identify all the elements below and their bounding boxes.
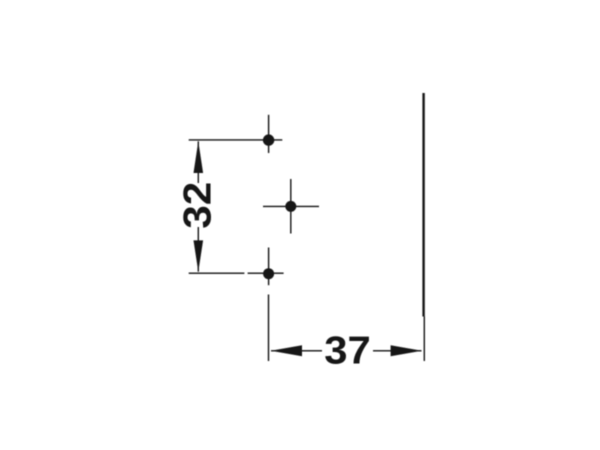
arrow up (32 dim) — [194, 141, 204, 173]
centerline middle hole horizontal — [263, 205, 319, 207]
hole dot bottom — [263, 268, 274, 279]
extension line bottom hole — [189, 272, 245, 274]
extension line top hole — [189, 139, 283, 141]
svg-text:32: 32 — [176, 182, 219, 229]
centerline bottom hole horizontal — [248, 272, 284, 274]
arrow down (32 dim) — [194, 240, 204, 271]
centerline top hole vertical — [268, 115, 270, 153]
extension line below bottom hole — [268, 295, 270, 362]
dimension line 32 lower segment — [197, 227, 199, 272]
hole dot top — [263, 134, 274, 145]
centerline bottom hole vertical — [268, 248, 270, 286]
centerline middle hole vertical — [290, 179, 292, 234]
dimension line 32 upper segment — [197, 141, 199, 183]
arrow right (37 dim) — [391, 345, 422, 356]
dimension line 37 right segment — [373, 350, 422, 352]
svg-text:37: 37 — [324, 330, 371, 373]
arrow left (37 dim) — [271, 345, 302, 356]
dimension line 37 left segment — [271, 350, 322, 352]
plate edge line — [422, 93, 424, 317]
extension line right (below plate edge) — [423, 317, 425, 362]
hole dot middle — [285, 201, 296, 212]
